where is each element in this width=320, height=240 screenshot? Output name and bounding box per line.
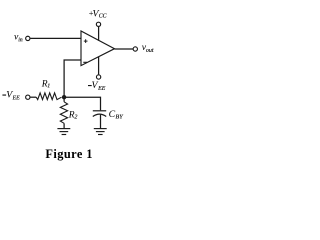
wire CBY to ground bbox=[100, 115, 102, 129]
svg-text:EE: EE bbox=[12, 95, 21, 101]
terminal vout bbox=[133, 47, 137, 51]
wire +VCC to op-amp top bbox=[98, 27, 100, 41]
resistor R1 bbox=[36, 93, 61, 100]
svg-text:2: 2 bbox=[74, 115, 77, 121]
label vout bbox=[142, 42, 154, 54]
svg-text:out: out bbox=[146, 48, 154, 54]
ground under CBY bbox=[94, 129, 107, 135]
label CBY bbox=[109, 109, 125, 121]
wire node A down to R2 bbox=[63, 97, 65, 102]
svg-text:CC: CC bbox=[99, 14, 107, 20]
terminal -VEE left bbox=[26, 95, 30, 99]
op-amp plus input marking bbox=[84, 39, 88, 43]
svg-text:in: in bbox=[18, 38, 23, 44]
label R1 bbox=[41, 79, 51, 89]
capacitor CBY bbox=[93, 111, 106, 117]
op-amp minus input marking bbox=[83, 61, 87, 63]
label -VEE below op-amp bbox=[88, 80, 106, 92]
op-amp U1 bbox=[81, 31, 115, 66]
svg-text:Figure 1: Figure 1 bbox=[45, 147, 93, 161]
label vin bbox=[14, 32, 23, 44]
terminal vin bbox=[26, 36, 30, 40]
wire -VEE terminal to R1 bbox=[30, 96, 36, 98]
resistor R2 bbox=[60, 102, 67, 124]
terminal -VEE below op-amp bbox=[96, 75, 100, 79]
node A junction dot bbox=[62, 95, 66, 99]
wire vin to op-amp noninverting input bbox=[30, 37, 81, 39]
svg-text:EE: EE bbox=[97, 86, 106, 92]
wire op-amp output bbox=[115, 48, 134, 50]
ground under R2 bbox=[57, 129, 70, 135]
wire R2 to ground bbox=[63, 123, 65, 128]
label +VCC bbox=[89, 8, 107, 19]
svg-text:BY: BY bbox=[115, 114, 124, 121]
wire inverting input to node A bbox=[64, 60, 81, 96]
svg-text:1: 1 bbox=[47, 83, 50, 89]
label R2 bbox=[68, 111, 78, 121]
wire node A to capacitor branch bbox=[64, 97, 100, 110]
label -VEE left bbox=[2, 90, 20, 102]
wire op-amp bottom to -VEE terminal bbox=[98, 57, 100, 75]
terminal +VCC bbox=[96, 22, 100, 26]
caption Figure 1 bbox=[45, 147, 93, 161]
